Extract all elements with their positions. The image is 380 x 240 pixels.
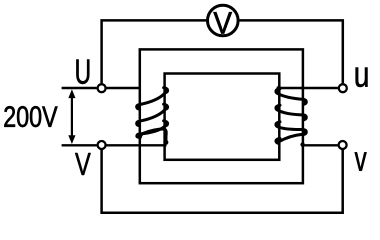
wire: V down to bottom rail	[102, 149, 343, 213]
terminal U	[98, 84, 106, 92]
terminal u	[339, 84, 347, 92]
200V measurement arrow	[71, 94, 73, 140]
label V	[75, 153, 91, 175]
secondary coil curl blobs	[275, 89, 308, 144]
transformer core inner rectangle	[165, 74, 280, 160]
terminal v	[339, 141, 347, 149]
transformer core outer rectangle	[140, 49, 303, 183]
secondary coil to v-wire junction dot	[300, 142, 304, 146]
wire: V lead	[62, 144, 97, 146]
wire: U lead	[62, 87, 97, 89]
wire: U to primary coil	[107, 87, 140, 89]
label 200V	[4, 106, 57, 127]
wire: v to secondary coil bottom	[303, 144, 338, 146]
wire: top wire right segment (voltmeter to u vertical)	[239, 20, 343, 83]
voltmeter V1	[208, 5, 239, 36]
wire: u to secondary coil top	[279, 87, 338, 89]
secondary winding L2 (right coil)	[276, 89, 306, 144]
secondary coil junction dot	[276, 86, 281, 91]
primary coil junction dot	[163, 140, 168, 145]
voltmeter label V	[214, 12, 232, 33]
wire: V to primary coil bottom	[107, 144, 167, 146]
primary coil curl blobs	[136, 88, 169, 139]
label v	[355, 152, 367, 170]
wire: top wire left segment (U vertical to voltmeter)	[102, 20, 207, 83]
terminal V	[98, 141, 106, 149]
label u	[356, 68, 368, 87]
primary winding L1 (left coil)	[137, 88, 168, 142]
label U	[76, 60, 89, 84]
